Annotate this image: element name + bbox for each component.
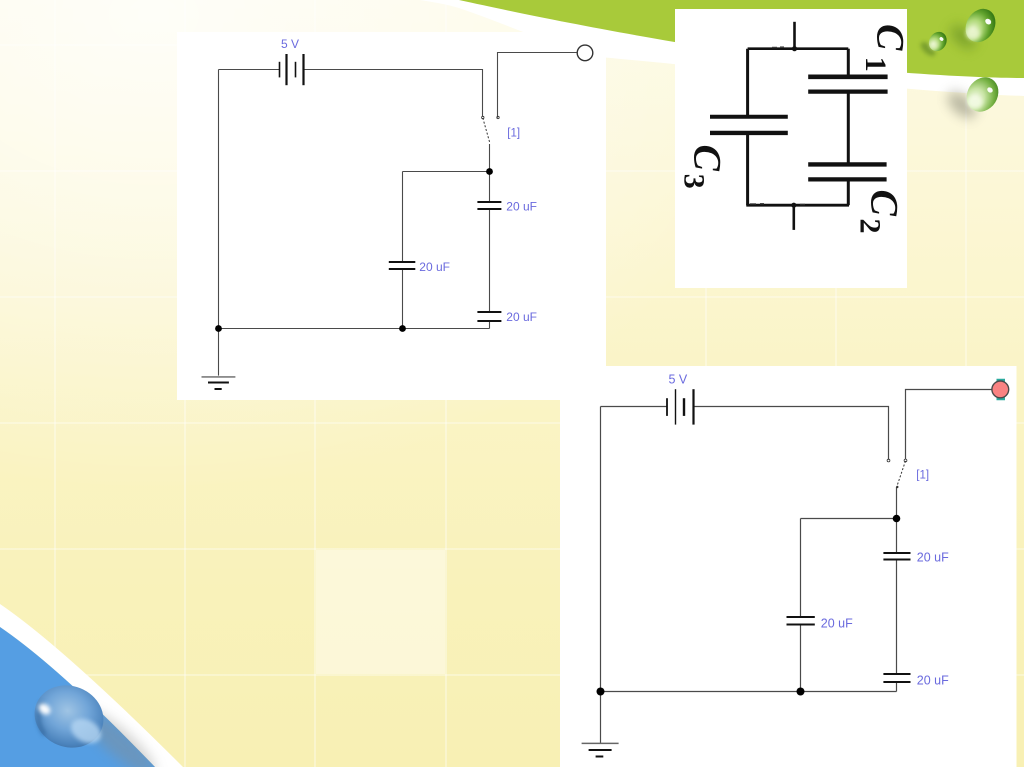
- svg-text:5 V: 5 V: [281, 37, 299, 51]
- svg-text:20 uF: 20 uF: [821, 617, 853, 631]
- svg-text:C: C: [869, 24, 913, 51]
- svg-text:5 V: 5 V: [669, 373, 688, 387]
- svg-text:20 uF: 20 uF: [506, 310, 537, 324]
- svg-text:C: C: [686, 145, 730, 172]
- svg-text:1: 1: [859, 57, 892, 72]
- svg-text:[1]: [1]: [507, 128, 520, 140]
- svg-text:20 uF: 20 uF: [917, 551, 949, 565]
- svg-text:20 uF: 20 uF: [917, 674, 949, 688]
- svg-text:20 uF: 20 uF: [419, 260, 450, 274]
- svg-text:2: 2: [854, 219, 887, 234]
- svg-text:20 uF: 20 uF: [506, 200, 537, 214]
- svg-text:3: 3: [678, 174, 711, 189]
- svg-text:[1]: [1]: [916, 470, 929, 482]
- svg-text:C: C: [863, 190, 907, 217]
